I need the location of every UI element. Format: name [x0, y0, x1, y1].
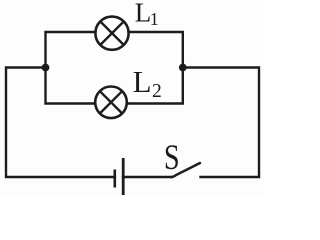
wire node B to right side down [183, 68, 259, 178]
wire top branch left (node A to lamp L1) [46, 32, 97, 68]
wire battery to switch [123, 176, 172, 178]
node B junction dot [179, 64, 187, 72]
battery negative plate (short bar) [114, 170, 117, 188]
svg-text:2: 2 [152, 81, 162, 102]
wire node A to left side down to battery [6, 68, 115, 178]
node A junction dot [42, 64, 50, 72]
lamp L2 [95, 87, 127, 119]
svg-text:S: S [164, 137, 180, 177]
lamp L1 [95, 17, 128, 50]
svg-text:L: L [133, 64, 152, 99]
wire bottom branch left (node A to lamp L2) [46, 68, 97, 104]
battery positive plate (long bar) [122, 158, 125, 195]
svg-text:1: 1 [150, 9, 159, 29]
wire top branch right (lamp L1 to node B) [128, 32, 183, 68]
wire bottom branch right (lamp L2 to node B) [126, 68, 183, 104]
switch S blade [171, 163, 201, 177]
